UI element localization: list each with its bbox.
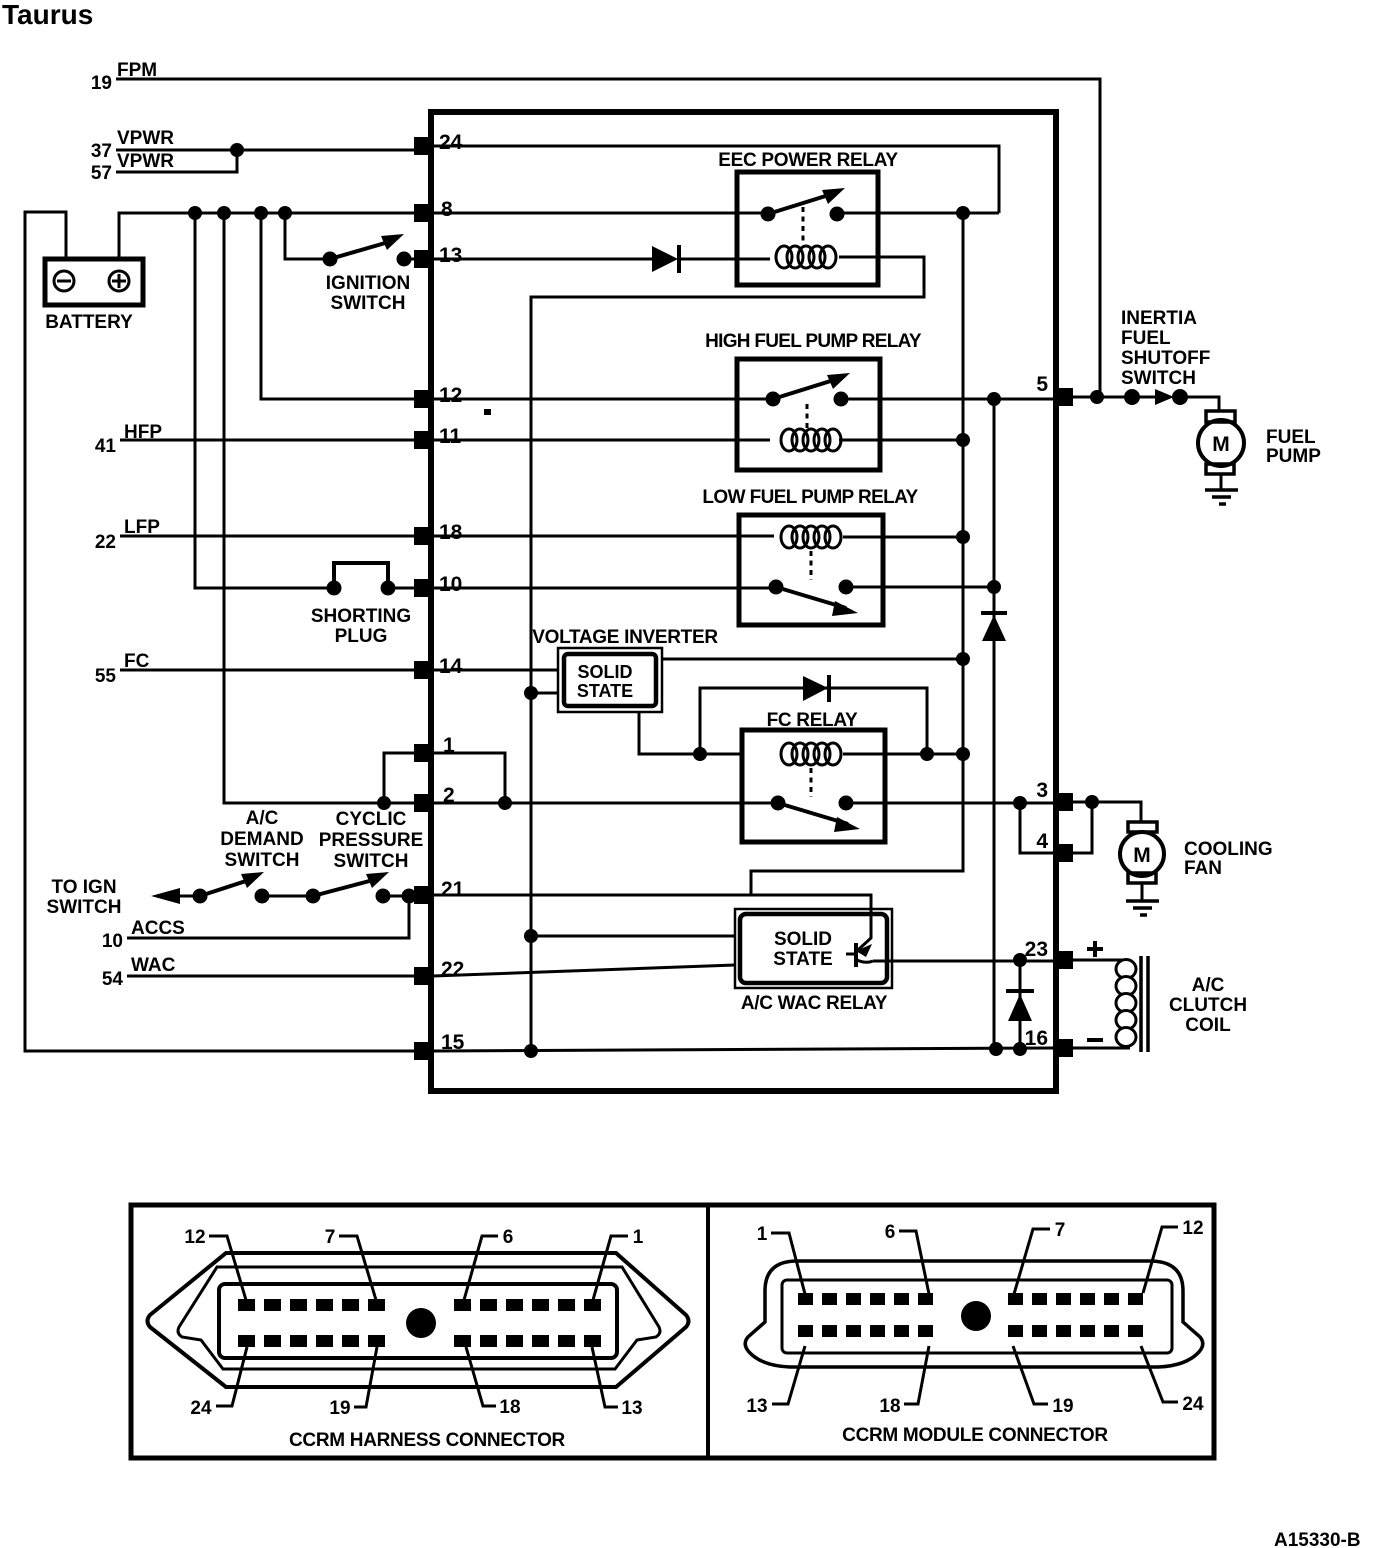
transistor Q1 in WAC relay [846,913,873,967]
wire pin 14 internal [433,669,558,672]
wire FC pin 55 [120,669,416,672]
pin 22 [414,958,464,985]
svg-text:11: 11 [439,425,462,448]
svg-text:HIGH FUEL PUMP RELAY: HIGH FUEL PUMP RELAY [705,331,922,352]
svg-text:IGNITION: IGNITION [326,273,410,294]
wire to ign switch arrow [151,888,200,904]
wire WAC output to pin 23 [873,960,1054,963]
module pin label 18 [879,1346,929,1417]
relay high fuel pump relay [705,331,922,470]
svg-text:LOW FUEL PUMP RELAY: LOW FUEL PUMP RELAY [702,487,918,508]
svg-text:10: 10 [102,931,123,952]
svg-text:37: 37 [91,141,112,162]
label 41 HFP [95,422,162,457]
svg-text:12: 12 [184,1227,205,1248]
svg-text:PRESSURE: PRESSURE [319,830,424,851]
svg-text:SWITCH: SWITCH [331,293,406,314]
junction HFP coil return [956,433,970,447]
module pin label 24 [1141,1346,1204,1415]
junction A/C diode top [1013,953,1027,967]
voltage inverter solid state [532,627,718,712]
svg-text:55: 55 [95,666,117,687]
label 19 FPM [91,60,157,94]
svg-text:CCRM MODULE CONNECTOR: CCRM MODULE CONNECTOR [842,1425,1108,1446]
harness pin label 6 [464,1227,513,1300]
svg-text:M: M [1212,433,1230,456]
svg-text:LFP: LFP [124,517,160,538]
module pin label 13 [746,1346,805,1417]
wire WAC input from EEC return [531,935,735,938]
harness pin label 12 [184,1227,246,1300]
shorting plug [311,563,416,647]
wire inverter output bottom [639,712,742,754]
junction FC bypass right [920,747,934,761]
module pin label 6 [885,1222,929,1294]
junction returns vertical bottom [989,1042,1003,1056]
pin 14 [414,655,463,679]
wire pin 1 external jumper [384,753,416,803]
svg-text:1: 1 [633,1227,644,1248]
module pin label 12 [1143,1218,1204,1293]
svg-text:CCRM HARNESS CONNECTOR: CCRM HARNESS CONNECTOR [289,1430,566,1451]
wire FPM pin 19 [116,79,1100,397]
pin 5 [1036,373,1073,406]
harness pin label 18 [466,1347,521,1418]
pin 16 [1025,1027,1073,1057]
svg-text:8: 8 [441,198,453,221]
wire VPWR pin 57 [116,150,237,172]
relay EEC power relay [718,150,898,285]
wire LFP pin 22 [120,535,416,538]
pin 11 [414,425,462,449]
svg-text:FUEL: FUEL [1266,427,1316,448]
pin 18 [414,521,463,545]
label 37 VPWR [91,128,174,162]
svg-text:SWITCH: SWITCH [47,897,122,918]
label 57 VPWR [91,151,174,184]
motor M2 cooling fan [1120,822,1273,901]
wire pin 12 internal [433,398,1054,401]
wire pin 22 internal [433,965,735,976]
pin 4 [1036,830,1073,862]
wire FC coil return [843,753,963,756]
wire pin 3 to cooling fan [1073,802,1141,822]
CCRM module connector shell [745,1261,1203,1367]
junction pin5 branch [987,392,1001,406]
CCRM harness connector shell outer [148,1253,689,1387]
svg-text:EEC POWER RELAY: EEC POWER RELAY [718,150,898,171]
svg-text:13: 13 [746,1396,767,1417]
wire EEC coil return [531,257,924,1051]
CCRM harness center post [406,1308,436,1338]
svg-text:12: 12 [439,384,462,407]
pin 15 [414,1031,465,1060]
svg-text:SWITCH: SWITCH [225,850,300,871]
svg-text:FAN: FAN [1184,858,1222,879]
svg-text:18: 18 [499,1397,520,1418]
svg-text:13: 13 [439,244,462,267]
harness pin label 19 [329,1347,377,1419]
pin 1 [414,734,455,762]
svg-text:23: 23 [1025,938,1048,961]
diode D1 on pin 13 [652,245,679,273]
svg-text:WAC: WAC [131,955,176,976]
pin 12 [414,384,462,408]
svg-text:SWITCH: SWITCH [1121,368,1196,389]
wire pin 16 to clutch coil [1073,1047,1130,1050]
junction EEC return to ground line [524,1044,538,1058]
wire pin 24 internal [433,146,999,213]
pin 3 [1036,779,1073,811]
svg-text:A/C WAC RELAY: A/C WAC RELAY [741,993,888,1014]
svg-text:A/C: A/C [1192,975,1225,996]
wire pin 13 internal [433,258,770,261]
svg-text:7: 7 [325,1227,336,1248]
motor M1 fuel pump [1198,411,1321,490]
junction inverter input [524,686,538,700]
svg-text:3: 3 [1036,779,1048,802]
svg-text:57: 57 [91,163,112,184]
wire relay returns vertical [993,399,996,1049]
svg-text:22: 22 [441,958,464,981]
wire battery negative to pin 15 [25,212,415,1051]
svg-text:SOLID: SOLID [774,929,832,950]
svg-text:22: 22 [95,532,116,553]
pin 8 [414,198,453,222]
module pin label 7 [1014,1220,1065,1294]
wire pin 1 internal jumper [433,753,505,803]
CCRM harness connector shell inner [178,1267,660,1369]
svg-text:24: 24 [190,1398,212,1419]
battery B1 [45,259,143,333]
svg-text:COIL: COIL [1185,1015,1231,1036]
svg-text:18: 18 [879,1396,900,1417]
svg-text:SOLID: SOLID [577,662,632,682]
svg-text:6: 6 [885,1222,896,1243]
wire pin 2 internal [433,802,1054,805]
CCRM harness pins top row [238,1299,601,1311]
wire FC bypass diode loop [700,688,927,754]
relay A/C WAC solid state [735,909,892,1014]
svg-text:10: 10 [439,573,462,596]
connector panel divider [706,1205,710,1458]
svg-text:6: 6 [503,1227,514,1248]
svg-text:7: 7 [1055,1220,1066,1241]
label 54 WAC [102,955,176,990]
svg-text:41: 41 [95,436,117,457]
ignition switch [285,213,416,314]
svg-text:VOLTAGE INVERTER: VOLTAGE INVERTER [532,627,718,648]
wire pin3 pin4 inner bracket [1020,803,1054,853]
harness pin label 24 [190,1347,247,1419]
wire inertia switch to fuel pump [1180,397,1219,411]
junction FC coil right [956,747,970,761]
svg-text:FPM: FPM [117,60,157,81]
relay low fuel pump relay [702,487,918,625]
svg-text:TO IGN: TO IGN [51,877,116,898]
svg-text:Taurus: Taurus [2,0,93,30]
wire HFP pin 41 [120,439,416,442]
junction FC coil left [693,747,707,761]
harness pin label 13 [592,1347,643,1419]
wire pin 8 internal [433,212,999,215]
svg-text:VPWR: VPWR [117,128,174,149]
wire inverter output top [662,658,963,661]
wire bus to shorting plug [195,213,334,588]
wire pin 21 internal [433,895,871,913]
pin 10 [414,573,462,597]
diode D3 on returns vertical [981,613,1007,641]
junction bus D [278,206,292,220]
junction EEC output [956,206,970,220]
wire inverter input 2 [531,692,558,695]
minus sign clutch [1087,1038,1103,1042]
svg-text:4: 4 [1036,830,1048,853]
junction LFP switch return [987,580,1001,594]
junction A/C diode bottom [1013,1042,1027,1056]
svg-text:INERTIA: INERTIA [1121,308,1197,329]
wire bus to pin 12 [261,213,416,399]
junction LFP coil return [956,530,970,544]
wire pin 10 internal [433,587,994,588]
svg-text:BATTERY: BATTERY [45,312,133,333]
svg-text:DEMAND: DEMAND [220,829,303,850]
label 55 FC [95,651,150,687]
svg-text:12: 12 [1182,1218,1203,1239]
junction bus C [254,206,268,220]
junction pin3 inner [1013,796,1027,810]
CCRM module connector pin field [782,1280,1172,1353]
svg-text:24: 24 [1182,1394,1204,1415]
junction bus A [188,206,202,220]
wire pin 11 internal [433,439,963,442]
svg-text:COOLING: COOLING [1184,839,1273,860]
ground cooling fan [1126,901,1159,915]
label TO IGN SWITCH [47,877,122,918]
svg-text:SHORTING: SHORTING [311,606,411,627]
junction bus B [217,206,231,220]
svg-text:CYCLIC: CYCLIC [336,809,407,830]
svg-text:PLUG: PLUG [335,626,388,647]
wire bus to pin 2 [224,213,416,803]
svg-text:24: 24 [439,131,463,154]
svg-text:PUMP: PUMP [1266,446,1321,467]
inertia fuel shutoff switch [1121,308,1210,405]
relay FC relay [742,710,885,842]
wire pin 18 internal [433,536,963,537]
svg-text:19: 19 [91,73,112,94]
svg-text:18: 18 [439,521,463,544]
diode D2 FC bypass [803,675,829,702]
junction VPWR [230,143,244,157]
junction inverter output [956,652,970,666]
CCRM harness connector pin field [219,1284,617,1358]
junction pin1 jumper inside [498,796,512,810]
svg-text:54: 54 [102,969,124,990]
svg-text:1: 1 [757,1224,768,1245]
svg-text:A/C: A/C [246,808,279,829]
svg-text:14: 14 [439,655,463,678]
CCRM module center post [961,1301,991,1331]
label 10 ACCS [102,918,185,952]
svg-text:19: 19 [329,1398,350,1419]
junction FPM tap [1090,390,1104,404]
module CCRM outline [431,112,1056,1091]
ground fuel pump [1205,490,1238,504]
wire battery positive bus to pin 8 [119,213,416,259]
wire pin 21 branch to coils bus [751,213,963,895]
svg-text:FUEL: FUEL [1121,328,1171,349]
pin 2 [414,784,455,812]
connector panel box [131,1205,1214,1458]
junction pin1 jumper outside [377,796,391,810]
svg-text:5: 5 [1036,373,1048,396]
speck artifact [484,409,491,415]
pin 24 [414,131,463,155]
module pin label 19 [1013,1346,1074,1417]
diode D4 A/C clutch [1006,960,1034,1049]
svg-text:STATE: STATE [577,681,633,701]
junction pin3 outer [1085,795,1099,809]
wire VPWR pin 37 [116,149,416,152]
cyclic pressure switch [306,809,424,904]
svg-text:A15330-B: A15330-B [1274,1530,1361,1548]
pin 21 [414,878,465,904]
svg-text:M: M [1133,844,1151,867]
svg-text:13: 13 [621,1398,642,1419]
inductor A/C clutch coil [1116,956,1247,1052]
svg-text:VPWR: VPWR [117,151,174,172]
wire pin 5 to inertia switch [1073,396,1132,399]
CCRM module pins bottom row [798,1325,1143,1337]
pin 23 [1025,938,1073,969]
label 22 LFP [95,517,160,553]
wire ACCS pin 10 [127,896,409,938]
svg-text:ACCS: ACCS [131,918,185,939]
svg-text:19: 19 [1052,1396,1073,1417]
pin 13 [414,244,462,268]
a/c demand switch [193,808,314,904]
wire pin 15 internal [433,1048,1054,1051]
plus sign clutch [1087,941,1103,957]
svg-text:STATE: STATE [773,949,832,970]
CCRM harness pins bottom row [238,1335,601,1347]
svg-text:SWITCH: SWITCH [334,851,409,872]
wire pin3 pin4 outer bracket [1073,802,1092,853]
CCRM module pins top row [798,1293,1143,1305]
harness pin label 7 [325,1227,376,1300]
junction WAC input [524,929,538,943]
svg-text:HFP: HFP [124,422,162,443]
svg-text:21: 21 [441,878,465,901]
harness pin label 1 [593,1227,644,1300]
module pin label 1 [757,1224,805,1294]
wire pin 23 to clutch coil [1073,959,1130,962]
svg-text:CLUTCH: CLUTCH [1169,995,1247,1016]
svg-text:FC: FC [124,651,150,672]
wire WAC pin 54 [127,975,416,978]
svg-text:SHUTOFF: SHUTOFF [1121,348,1210,369]
